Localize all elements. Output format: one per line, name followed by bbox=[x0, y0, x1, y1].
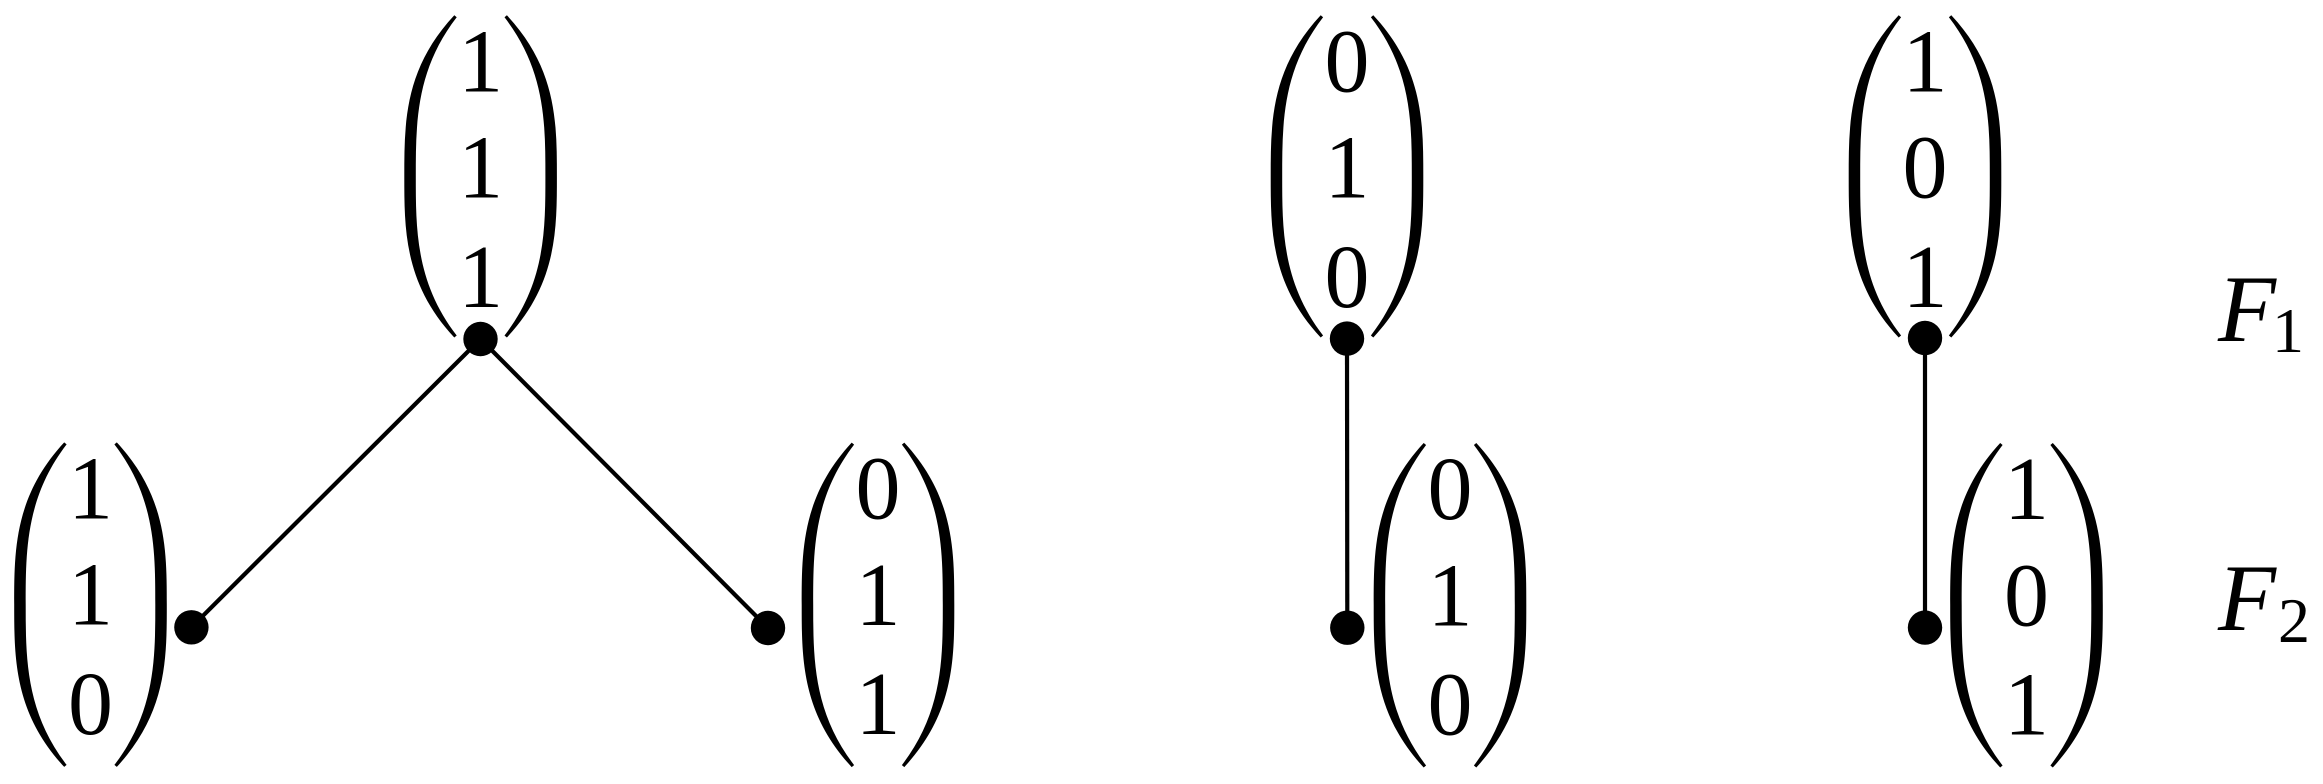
node dot: middle tree F2 vertex bbox=[1330, 611, 1364, 645]
svg-text:0: 0 bbox=[1325, 12, 1370, 111]
node dot: left child of left tree (F2 row) bbox=[174, 610, 208, 644]
svg-text:1: 1 bbox=[458, 12, 503, 111]
vector label V2 (1,1,0) left child of left tree bbox=[14, 439, 167, 767]
vector label V7 (1,0,1) bottom vertex of right edge bbox=[1950, 440, 2103, 768]
svg-text:1: 1 bbox=[1903, 228, 1948, 327]
svg-text:1: 1 bbox=[856, 546, 901, 645]
svg-text:1: 1 bbox=[2272, 295, 2304, 366]
svg-text:1: 1 bbox=[1325, 119, 1370, 218]
node dot: middle tree F1 vertex bbox=[1330, 321, 1364, 355]
svg-text:F: F bbox=[2217, 256, 2277, 362]
svg-text:1: 1 bbox=[458, 228, 503, 327]
node dot: top vertex of left tree (F1 row) bbox=[463, 322, 497, 356]
svg-text:1: 1 bbox=[68, 439, 113, 538]
vector label V5 (0,1,0) bottom vertex of middle edge bbox=[1374, 440, 1527, 768]
svg-text:1: 1 bbox=[2004, 656, 2049, 755]
vector label V4 (0,1,0) top vertex of middle edge bbox=[1271, 12, 1424, 337]
svg-text:1: 1 bbox=[856, 655, 901, 754]
vector label V3 (0,1,1) right child of left tree bbox=[802, 440, 955, 768]
node dot: right tree F1 vertex bbox=[1908, 321, 1942, 355]
label F2 (second flag row) bbox=[2217, 545, 2310, 656]
node dot: right child of left tree (F2 row) bbox=[751, 611, 785, 645]
svg-text:0: 0 bbox=[1428, 440, 1473, 539]
svg-text:F: F bbox=[2217, 545, 2277, 651]
vector label V1 (1,1,1) top vertex of left tree bbox=[404, 12, 557, 337]
svg-text:1: 1 bbox=[1428, 546, 1473, 645]
wire/edge: middle tree vertical edge bbox=[1345, 339, 1350, 628]
svg-text:1: 1 bbox=[1903, 12, 1948, 111]
svg-text:0: 0 bbox=[68, 655, 113, 754]
svg-text:0: 0 bbox=[1903, 119, 1948, 218]
svg-text:0: 0 bbox=[856, 440, 901, 539]
svg-text:1: 1 bbox=[458, 119, 503, 218]
vector label V6 (1,0,1) top vertex of right edge bbox=[1849, 12, 2002, 337]
wire/edge: right tree vertical edge bbox=[1923, 338, 1927, 628]
svg-text:0: 0 bbox=[2004, 546, 2049, 645]
wire/edge: left tree, top vertex to left child bbox=[191, 339, 480, 627]
label F1 (first flag row) bbox=[2217, 256, 2304, 366]
wire/edge: left tree, top vertex to right child bbox=[481, 339, 769, 628]
svg-text:0: 0 bbox=[1325, 228, 1370, 327]
svg-text:1: 1 bbox=[2004, 440, 2049, 539]
node dot: right tree F2 vertex bbox=[1908, 610, 1942, 644]
svg-text:2: 2 bbox=[2278, 585, 2310, 656]
svg-text:1: 1 bbox=[68, 546, 113, 645]
svg-text:0: 0 bbox=[1428, 656, 1473, 755]
